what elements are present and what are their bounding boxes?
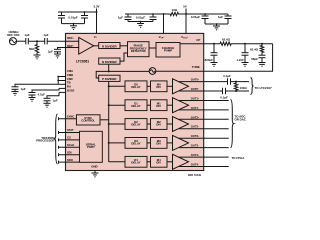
resistor 63.4 ohm xyxy=(260,44,263,56)
pin SDI xyxy=(67,150,72,154)
ground xyxy=(29,98,36,102)
wire REF- to bypass cap xyxy=(58,48,66,50)
output row 0: buffer amp xyxy=(173,79,189,94)
svg-text:SCLK: SCLK xyxy=(67,143,74,147)
svg-text:DELAY: DELAY xyxy=(131,104,140,108)
fig number xyxy=(188,174,202,177)
output row 2: delay D2 xyxy=(125,119,147,130)
wire 5V node xyxy=(185,9,187,34)
pin OUT2- xyxy=(179,125,229,129)
svg-text:1μF: 1μF xyxy=(118,16,123,20)
brace TO ADC OR DAC xyxy=(231,100,234,148)
wire D4 to M4 xyxy=(147,161,151,163)
svg-text:1μF: 1μF xyxy=(43,33,48,37)
output row 0: divider M0 xyxy=(151,81,168,92)
wire bus to D1 xyxy=(108,104,125,106)
pin OUT2+ xyxy=(179,115,229,119)
pin SYNC xyxy=(67,115,75,119)
svg-text:REF OSC: REF OSC xyxy=(7,33,19,37)
wire D0 to M0 xyxy=(147,85,151,87)
wire osc to cap xyxy=(17,40,26,42)
wire D2 to M2 xyxy=(147,123,151,125)
pin OUT3+ xyxy=(179,134,229,138)
svg-text:TB: TB xyxy=(67,81,71,85)
svg-text:PUMP: PUMP xyxy=(164,49,172,53)
svg-text:3.3V: 3.3V xyxy=(94,4,100,8)
svg-text:OR DAC: OR DAC xyxy=(235,117,247,121)
ground xyxy=(140,22,142,24)
input buffer amp xyxy=(79,38,94,55)
supply 3.3V xyxy=(94,4,100,8)
wire VCP bypass bottom xyxy=(128,21,153,23)
pin CMA xyxy=(67,69,73,73)
wire 5V to VVCO bypass xyxy=(186,13,228,15)
ground xyxy=(259,63,266,67)
pin REF- xyxy=(67,44,75,48)
SYNC CONTROL block xyxy=(76,115,100,125)
resistor 62.4 ohm xyxy=(220,42,245,45)
svg-text:DELAY: DELAY xyxy=(131,85,140,89)
output row 3: delay D3 xyxy=(125,138,147,149)
label TO/FROM PROCESSOR xyxy=(36,136,55,143)
capacitor 1uF series (input 2) xyxy=(45,38,48,44)
wire bus to D3 xyxy=(108,142,125,144)
svg-text:TO LTC2107: TO LTC2107 xyxy=(255,86,273,90)
capacitor 0.1uF (OUT0-) xyxy=(223,88,226,94)
svg-text:68pF: 68pF xyxy=(251,57,258,61)
svg-text:DELAY: DELAY xyxy=(131,123,140,127)
pin V+ xyxy=(94,35,98,39)
svg-text:PORT: PORT xyxy=(87,145,95,149)
pin OUT0+ xyxy=(179,78,228,82)
pin BVSS xyxy=(67,89,75,93)
output row 1: divider M1 xyxy=(151,100,168,111)
svg-text:DELAY: DELAY xyxy=(131,142,140,146)
wire OUT0 pair to termination xyxy=(231,81,250,83)
capacitor 0.01uF (V+ byp a) xyxy=(58,12,65,24)
chip LTC6951 body xyxy=(66,33,204,170)
resistor 50 ohm xyxy=(35,41,38,55)
supply 5V xyxy=(183,4,187,8)
wire M0 to buffer xyxy=(167,85,173,87)
pin RA xyxy=(67,85,71,89)
wire REF- into amp xyxy=(66,47,79,49)
svg-text:DETECTOR: DETECTOR xyxy=(131,49,146,53)
svg-text:DIV: DIV xyxy=(156,104,161,108)
output row 1: buffer amp xyxy=(173,98,189,113)
wire D1 to M1 xyxy=(147,104,151,106)
svg-text:DIV: DIV xyxy=(156,161,161,165)
capacitor 4.7uF (TB) xyxy=(29,93,36,98)
wire bus to D2 xyxy=(108,123,125,125)
wire VCP+ node xyxy=(125,13,167,15)
pin SCLK xyxy=(67,143,74,147)
svg-text:0.1μF: 0.1μF xyxy=(220,96,228,100)
brace TO/FROM PROCESSOR xyxy=(54,114,57,164)
pin CS xyxy=(67,136,71,140)
wire P divider distribution bus xyxy=(108,81,110,161)
svg-text:DELAY: DELAY xyxy=(131,161,140,165)
pin CMB xyxy=(67,73,73,77)
pin CP xyxy=(196,38,200,42)
P DIVIDER block xyxy=(99,75,120,81)
pin TUNE xyxy=(192,65,200,69)
output row 1: delay D1 xyxy=(125,100,147,111)
loop filter: wire CP out xyxy=(204,43,220,45)
svg-text:1μF: 1μF xyxy=(218,15,223,19)
svg-text:R DIVIDER: R DIVIDER xyxy=(102,44,118,48)
svg-text:SDI: SDI xyxy=(67,150,72,154)
svg-text:0.01μF: 0.01μF xyxy=(136,16,145,20)
capacitor 68pF xyxy=(259,55,266,62)
SERIAL PORT block xyxy=(80,131,103,162)
wire N divider feedback from VCO bus xyxy=(108,64,110,71)
capacitor 1.2nF xyxy=(244,43,246,45)
wire VCO to TUNE pin xyxy=(156,70,204,72)
output row 4: buffer amp xyxy=(173,154,189,169)
svg-text:STAT: STAT xyxy=(67,128,74,132)
charge pump block xyxy=(156,43,180,58)
pin OUT4- xyxy=(179,163,229,167)
node 50 ohm tap xyxy=(36,40,38,42)
svg-text:DIV: DIV xyxy=(156,123,161,127)
svg-text:P DIVIDER: P DIVIDER xyxy=(102,77,117,81)
ground xyxy=(44,103,51,107)
pin CMC xyxy=(67,77,73,81)
wire CM line to C bypass xyxy=(15,84,58,87)
pin OUT0- xyxy=(179,87,223,91)
svg-text:CMB: CMB xyxy=(67,73,73,77)
svg-text:4.7μF: 4.7μF xyxy=(38,93,46,97)
capacitor 0.01uF (VCP byp b) xyxy=(150,14,157,22)
svg-text:1μF: 1μF xyxy=(24,33,29,37)
svg-text:SYNC: SYNC xyxy=(67,115,75,119)
ref oscillator xyxy=(7,30,19,37)
capacitor 0.01uF (VVCO byp a) xyxy=(202,14,209,24)
ground xyxy=(242,63,249,67)
pin GND bottom xyxy=(91,165,97,169)
svg-text:0.1μF: 0.1μF xyxy=(223,74,231,78)
VCO xyxy=(149,68,156,75)
pin OUT1- xyxy=(179,106,229,110)
chip label LTC6951 xyxy=(76,60,89,64)
node VCO bus junction xyxy=(108,70,110,72)
wire 3.3V to V+ pin xyxy=(96,9,98,34)
ground xyxy=(216,24,218,26)
ground xyxy=(34,55,41,59)
capacitor 1uF (VCP byp a) xyxy=(125,14,132,22)
svg-text:63.4Ω: 63.4Ω xyxy=(250,47,259,51)
capacitor 0.1uF (OUT0+) xyxy=(228,78,231,84)
output row 0: delay D0 xyxy=(125,81,147,92)
capacitor 1uF (REF-) xyxy=(54,49,61,54)
svg-text:50Ω: 50Ω xyxy=(29,47,35,51)
svg-text:DIV: DIV xyxy=(156,85,161,89)
svg-text:CMC: CMC xyxy=(67,77,73,81)
svg-text:LTC6951: LTC6951 xyxy=(76,60,89,64)
pin OUT1+ xyxy=(179,97,229,101)
resistor 100 ohm xyxy=(235,81,237,83)
svg-text:62.4Ω: 62.4Ω xyxy=(222,37,231,41)
svg-text:N DIVIDER: N DIVIDER xyxy=(102,60,118,64)
svg-text:RA: RA xyxy=(67,85,71,89)
pin TB xyxy=(67,81,71,85)
N DIVIDER block xyxy=(99,58,120,64)
wire M1 to buffer xyxy=(167,104,173,106)
pin OUT4+ xyxy=(179,153,229,157)
wire M3 to buffer xyxy=(167,142,173,144)
ground xyxy=(12,92,19,96)
pin OUT3- xyxy=(179,144,229,148)
output row 2: divider M2 xyxy=(151,119,168,130)
svg-text:820pF: 820pF xyxy=(205,58,214,62)
svg-text:10Ω: 10Ω xyxy=(172,8,178,12)
svg-text:BVSS: BVSS xyxy=(67,89,75,93)
PFD block xyxy=(128,42,150,57)
svg-text:0.01μF: 0.01μF xyxy=(191,15,200,19)
output row 4: divider M4 xyxy=(151,156,168,167)
svg-text:GND: GND xyxy=(91,165,97,169)
capacitor 1uF series (input 1) xyxy=(26,38,29,44)
ground xyxy=(211,63,218,67)
output row 2: buffer amp xyxy=(173,117,189,132)
wire amp to R divider xyxy=(94,45,99,47)
svg-text:1μF: 1μF xyxy=(53,99,58,103)
output row 4: delay D4 xyxy=(125,156,147,167)
capacitor 820pF xyxy=(211,44,218,63)
brace TO LTC2107 xyxy=(251,78,254,95)
pin STAT xyxy=(67,128,74,132)
pin VVCO+ xyxy=(181,35,189,40)
capacitor 1uF (V+ byp b) xyxy=(81,12,88,24)
label TO FPGA xyxy=(232,156,246,160)
wire M2 to buffer xyxy=(167,123,173,125)
wire BVSS line to C bypass xyxy=(47,92,59,98)
wire R divider to PFD xyxy=(120,45,128,47)
wire D3 to M3 xyxy=(147,142,151,144)
wire VCO output to P divider xyxy=(96,71,149,78)
pin REF+ xyxy=(67,36,75,40)
wire cap2 to REF+ xyxy=(47,40,78,42)
wire SYNC pin xyxy=(59,118,77,120)
ground xyxy=(54,54,61,58)
pin SDO xyxy=(67,158,73,162)
wire to RC branch xyxy=(245,43,273,45)
wire VVCO bypass bottom xyxy=(205,23,228,25)
svg-text:CP: CP xyxy=(196,38,200,42)
svg-text:1μF: 1μF xyxy=(48,50,53,54)
capacitor 1uF (BVSS) xyxy=(44,98,51,103)
wire filter return to TUNE xyxy=(204,44,273,72)
wire CM tie bus xyxy=(57,77,59,85)
svg-text:SDO: SDO xyxy=(67,158,73,162)
svg-text:0.01μF: 0.01μF xyxy=(68,15,77,19)
ground xyxy=(73,24,75,26)
wire bus to D0 xyxy=(108,85,125,87)
wire sync control to distribution xyxy=(100,119,109,121)
svg-text:5V: 5V xyxy=(183,4,187,8)
svg-text:TUNE: TUNE xyxy=(192,65,200,69)
svg-text:100Ω: 100Ω xyxy=(240,86,248,90)
svg-text:6951 TA01b: 6951 TA01b xyxy=(188,174,202,177)
wire 3.3V bypass rail xyxy=(58,11,97,13)
wire cap to cap xyxy=(28,40,44,42)
capacitor 1uF (CM) xyxy=(12,87,19,92)
svg-text:CS: CS xyxy=(67,136,71,140)
pin VCP+ xyxy=(159,35,166,40)
svg-text:1.2nF: 1.2nF xyxy=(236,58,244,62)
svg-text:PROCESSOR: PROCESSOR xyxy=(36,139,55,143)
wire PFD to charge pump xyxy=(149,47,156,49)
wire bus to D4 xyxy=(109,161,125,163)
wire charge pump to CP pin xyxy=(180,43,204,45)
resistor 10 ohm xyxy=(164,12,187,15)
svg-text:DIV: DIV xyxy=(156,142,161,146)
svg-text:CMA: CMA xyxy=(67,69,73,73)
R DIVIDER block xyxy=(99,43,120,49)
capacitor 1uF (VVCO byp b) xyxy=(225,14,232,24)
output row 3: buffer amp xyxy=(173,135,189,150)
wire N divider to PFD xyxy=(120,53,128,61)
svg-text:CONTROL: CONTROL xyxy=(81,119,95,123)
wire M4 to buffer xyxy=(167,161,173,163)
svg-text:1μF: 1μF xyxy=(21,87,26,91)
svg-text:TO FPGA: TO FPGA xyxy=(232,156,246,160)
wire bypass bottom xyxy=(62,23,85,25)
output row 3: divider M3 xyxy=(151,138,168,149)
wire TB line to C bypass xyxy=(32,88,59,92)
